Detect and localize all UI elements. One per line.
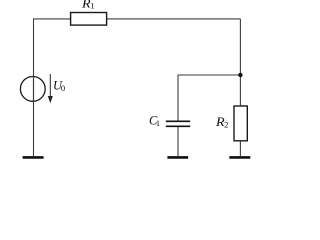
wire: left vertical branch bbox=[33, 19, 35, 156]
ground (left, under U0) bbox=[23, 156, 44, 159]
wire: right vertical branch bbox=[239, 19, 241, 106]
resistor R2 bbox=[234, 106, 247, 141]
ground (under R2) bbox=[229, 156, 250, 159]
wire: through source bbox=[33, 76, 35, 102]
ground (under C1) bbox=[167, 156, 188, 159]
wire: middle horizontal (node to capacitor) bbox=[178, 74, 240, 76]
svg-text:0: 0 bbox=[61, 83, 65, 93]
resistor R1 bbox=[71, 13, 107, 26]
svg-text:1: 1 bbox=[90, 1, 94, 11]
arrow U0 bbox=[49, 74, 51, 98]
svg-text:2: 2 bbox=[224, 120, 228, 130]
wire: top horizontal bbox=[33, 18, 240, 20]
node A (junction dot) bbox=[238, 73, 242, 77]
wire: R2 bottom lead bbox=[239, 141, 241, 157]
voltage source U0 bbox=[20, 77, 45, 102]
svg-text:1: 1 bbox=[156, 118, 160, 128]
wire: capacitor top lead bbox=[177, 75, 179, 121]
capacitor C1 bbox=[166, 120, 190, 122]
wire: capacitor bottom lead bbox=[177, 127, 179, 156]
